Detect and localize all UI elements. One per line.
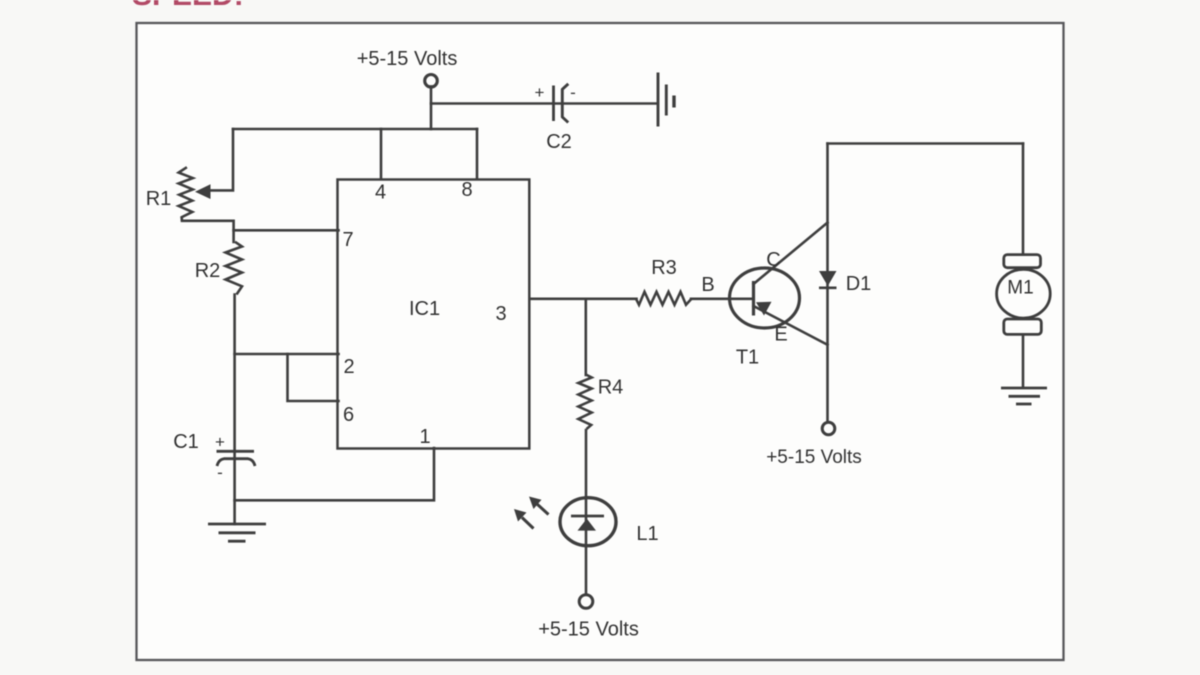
LED L1: [560, 498, 616, 546]
wire: top rail to motor: [828, 142, 1024, 145]
label R4: [598, 377, 624, 399]
label C1 plus: [215, 433, 225, 452]
wire: supply through C2 to ground: [431, 102, 657, 105]
label C: [766, 249, 780, 271]
L1 diode triangle: [578, 519, 597, 531]
wire: supply terminal to top bus (vertical): [430, 87, 433, 130]
border frame: [137, 23, 1064, 660]
svg-text:+5-15 Volts: +5-15 Volts: [766, 447, 862, 468]
label T1: [736, 347, 759, 369]
wire: collector diagonal to D1 rail: [754, 223, 828, 284]
svg-text:+5-15 Volts: +5-15 Volts: [538, 619, 639, 641]
wire: top bus horizontal: [233, 128, 477, 131]
transistor T1: [730, 268, 800, 328]
pin label 4: [375, 182, 386, 204]
svg-text:C: C: [766, 249, 780, 271]
pin label 8: [461, 179, 472, 201]
svg-text:R3: R3: [651, 257, 677, 279]
svg-text:M1: M1: [1007, 278, 1033, 299]
svg-text:T1: T1: [736, 347, 759, 369]
capacitor C1: [217, 451, 256, 466]
label C2 minus: [570, 83, 576, 102]
wire: R1 bottom to R2 top junction: [182, 221, 234, 242]
wire: ground node to pin 1 drop: [235, 448, 434, 500]
svg-text:R4: R4: [598, 377, 624, 399]
svg-text:R1: R1: [146, 188, 172, 210]
wire: pin 2-6 jog: [288, 354, 339, 401]
capacitor C2: [554, 84, 569, 123]
svg-text:+5-15 Volts: +5-15 Volts: [357, 48, 458, 70]
wire: pin 4 vertical: [380, 129, 383, 179]
wire: left bus drop to R1 wiper: [207, 129, 233, 190]
pin label 6: [343, 404, 354, 426]
L1 emission arrow lower: [514, 509, 534, 529]
pin label 1: [419, 426, 430, 448]
diode D1: [819, 271, 837, 288]
supply terminal top: [425, 75, 438, 88]
wire: pin 8 vertical: [476, 129, 479, 179]
pin label 2: [343, 356, 354, 378]
wire: pin 7: [234, 229, 339, 232]
ground under C1: [208, 524, 266, 541]
label +5-15 Volts (L1): [538, 619, 639, 641]
R1 wiper arrowhead: [195, 184, 211, 199]
wire: R3 to T1 base: [691, 297, 752, 300]
motor M1: [997, 255, 1051, 335]
wire: pin 3 to R3: [530, 297, 637, 300]
label +5-15 Volts (T1): [766, 447, 862, 468]
IC IC1 box: [338, 180, 530, 449]
pin label 3: [495, 303, 506, 325]
supply terminal under L1: [579, 595, 593, 609]
wire: motor to ground: [1022, 335, 1025, 388]
resistor R2: [226, 242, 243, 295]
wire: R4 branch vertical: [584, 299, 587, 375]
svg-text:IC1: IC1: [409, 298, 440, 320]
title text SPEED (clipped at top): [132, 0, 244, 12]
svg-text:C2: C2: [546, 131, 572, 153]
svg-text:1: 1: [419, 426, 430, 448]
svg-text:3: 3: [495, 303, 506, 325]
wire: D1 rail vertical: [826, 144, 829, 423]
svg-text:D1: D1: [846, 273, 872, 295]
label R3: [651, 257, 677, 279]
label C1: [173, 431, 199, 453]
ground right of C2 (sideways): [658, 73, 674, 127]
svg-text:2: 2: [343, 356, 354, 378]
svg-text:SPEED!: SPEED!: [132, 0, 244, 12]
svg-text:B: B: [701, 274, 714, 296]
label +5-15 Volts top: [357, 48, 458, 70]
pin label 7: [342, 229, 353, 251]
wire: pin 2: [235, 353, 339, 356]
label R2: [195, 260, 221, 282]
wire: R2 bottom through C1 to ground: [233, 295, 236, 525]
label C1 minus: [217, 463, 223, 482]
svg-text:7: 7: [342, 229, 353, 251]
supply terminal under T1: [822, 422, 835, 435]
T1 emitter arrowhead: [756, 302, 772, 316]
label M1: [1007, 278, 1033, 299]
label C2 plus: [535, 83, 545, 102]
wire: R4 through LED L1 to terminal: [585, 430, 588, 595]
label R1: [146, 188, 172, 210]
L1 emission arrow upper: [529, 497, 549, 515]
svg-text:E: E: [774, 324, 787, 346]
label E: [774, 324, 787, 346]
svg-text:-: -: [570, 83, 576, 102]
svg-text:+: +: [535, 83, 545, 102]
label IC1: [409, 298, 440, 320]
svg-text:+: +: [215, 433, 225, 452]
label C2: [546, 131, 572, 153]
svg-text:L1: L1: [636, 523, 658, 545]
wire: emitter diagonal to D1 rail: [754, 306, 828, 345]
resistor R4: [578, 375, 591, 430]
svg-text:R2: R2: [195, 260, 221, 282]
label B: [701, 274, 714, 296]
svg-text:-: -: [217, 463, 223, 482]
potentiometer R1: [179, 167, 193, 221]
wire: motor feed vertical: [1022, 144, 1025, 254]
resistor R3: [636, 292, 692, 305]
svg-text:4: 4: [375, 182, 386, 204]
svg-text:C1: C1: [173, 431, 199, 453]
ground under M1: [1001, 388, 1047, 404]
svg-text:6: 6: [343, 404, 354, 426]
label D1: [846, 273, 872, 295]
svg-text:8: 8: [461, 179, 472, 201]
label L1: [636, 523, 658, 545]
